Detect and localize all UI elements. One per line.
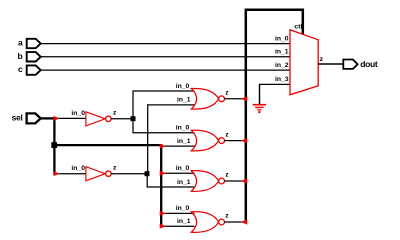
wire U2 out up to gate1 in_1 — [148, 105, 195, 174]
svg-text:z: z — [225, 131, 229, 138]
junction arrow G2 out on bus — [241, 138, 248, 143]
svg-text:in_2: in_2 — [275, 62, 289, 69]
svg-text:a: a — [18, 38, 23, 48]
wire a to mux in_0 — [40, 43, 290, 45]
ctl bus: vertical collector, top run, down to mux — [246, 10, 303, 222]
ripper arrow to U2 — [53, 171, 59, 176]
svg-text:in_0: in_0 — [176, 125, 190, 132]
svg-text:ctl: ctl — [294, 24, 302, 31]
svg-text:in_1: in_1 — [177, 97, 191, 104]
sel bus 2 vertical — [160, 144, 162, 226]
svg-text:z: z — [113, 164, 117, 171]
wire U1 output — [111, 118, 133, 120]
ripper arrow gate4 in_0 — [160, 211, 166, 216]
svg-text:sel: sel — [12, 113, 23, 123]
ground symbol — [253, 105, 266, 114]
svg-text:in_0: in_0 — [176, 83, 190, 90]
svg-text:c: c — [18, 64, 23, 74]
svg-text:in_1: in_1 — [177, 218, 191, 225]
svg-text:in_0: in_0 — [176, 165, 190, 172]
ripper arrow to U1 — [53, 116, 59, 121]
wire gate3 in_0 from bus — [162, 172, 195, 174]
ground stem — [259, 84, 261, 104]
svg-text:in_0: in_0 — [71, 165, 85, 172]
svg-text:in_0: in_0 — [275, 35, 289, 42]
ripper arrow gate4 in_1 — [160, 224, 166, 229]
wire c to mux in_2 — [40, 69, 290, 71]
wire U2 out down to gate3 in_1 — [147, 174, 194, 187]
NOR gate G2 — [191, 130, 224, 151]
mux U3 — [290, 30, 318, 95]
svg-text:in_1: in_1 — [275, 49, 289, 56]
input port b — [27, 52, 41, 61]
output port dout — [343, 60, 357, 69]
svg-text:in_1: in_1 — [177, 179, 191, 186]
svg-text:z: z — [225, 213, 229, 220]
svg-text:in_0: in_0 — [71, 110, 85, 117]
wire G2 output — [225, 140, 246, 142]
wire U1 out down to gate2 in_0 — [133, 119, 195, 133]
input port a — [27, 39, 41, 48]
wire U1 out up to gate1 in_0 — [133, 91, 195, 119]
wire sel port to ripper — [40, 117, 55, 119]
wire gate4 in_1 from bus — [162, 225, 195, 227]
wire G3 output — [225, 180, 246, 182]
sel bus horizontal branch — [54, 144, 161, 146]
NOR gate G3 — [191, 171, 224, 192]
wire b to mux in_1 — [40, 56, 290, 58]
junction square U2 out — [145, 171, 150, 176]
wire inverter U2 input — [56, 173, 86, 175]
wire mux z to dout — [318, 63, 343, 65]
inverter U2 — [86, 167, 111, 181]
svg-text:z: z — [320, 56, 324, 63]
svg-text:dout: dout — [360, 59, 378, 69]
ripper arrow gate3 in_0 — [160, 171, 166, 176]
junction square U1 out — [131, 116, 136, 121]
sel bus vertical — [53, 118, 55, 173]
svg-text:in_1: in_1 — [177, 138, 191, 145]
wire gate2 in_1 from bus — [162, 145, 195, 147]
svg-text:b: b — [17, 51, 22, 61]
svg-text:in_3: in_3 — [275, 76, 289, 83]
wire gate4 in_0 from bus — [162, 212, 195, 214]
wire U2 output — [111, 173, 147, 175]
NOR gate G1 — [191, 88, 224, 109]
junction arrow G4 out on bus — [241, 219, 248, 224]
svg-text:z: z — [225, 172, 229, 179]
junction arrow G1 out on bus — [241, 96, 248, 101]
svg-text:z: z — [113, 110, 117, 117]
ripper arrow gate2 in_1 — [160, 144, 166, 149]
wire ground to mux in_3 — [260, 84, 291, 104]
junction square sel bus — [51, 142, 57, 148]
junction arrow G3 out on bus — [241, 178, 248, 183]
input port c — [27, 65, 41, 74]
wire inverter U1 input — [56, 117, 86, 119]
svg-text:z: z — [225, 90, 229, 97]
NOR gate G4 — [191, 212, 224, 233]
wire G1 output — [225, 98, 246, 100]
svg-text:in_0: in_0 — [176, 205, 190, 212]
wire G4 output — [225, 221, 246, 223]
inverter U1 — [86, 112, 111, 126]
input port sel — [27, 113, 41, 123]
